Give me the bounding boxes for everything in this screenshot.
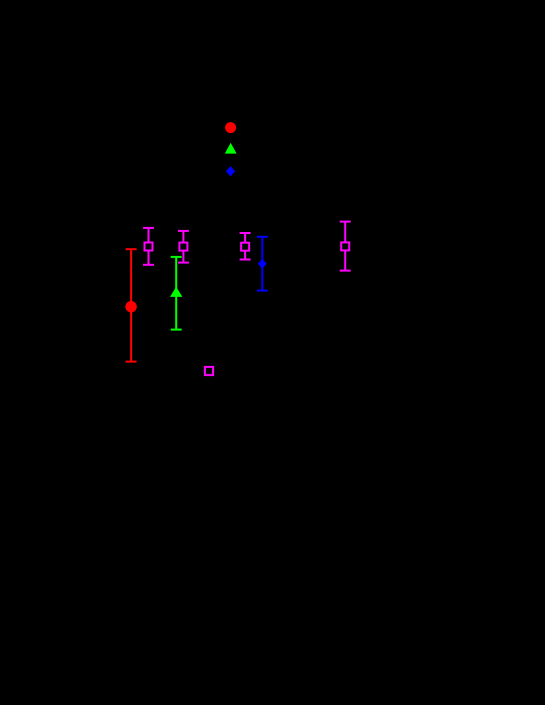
legend marker: red filled circle bbox=[225, 122, 236, 133]
legend marker: green filled triangle bbox=[225, 143, 237, 154]
marker: red filled circle bbox=[125, 301, 136, 312]
error bar: blue point bbox=[257, 237, 268, 291]
error bar: red point bbox=[126, 249, 137, 361]
marker: magenta open square (upper limit point) bbox=[205, 367, 213, 375]
error bar: green point bbox=[171, 257, 182, 330]
marker: green filled triangle bbox=[170, 287, 182, 297]
error bar: magenta point 3 bbox=[240, 233, 251, 260]
error bar: magenta point 4 bbox=[340, 222, 351, 271]
error bar: magenta point 2 bbox=[178, 231, 189, 263]
legend marker: blue filled diamond bbox=[226, 166, 235, 176]
marker: blue filled diamond bbox=[258, 259, 267, 269]
error bar: magenta point 1 bbox=[143, 228, 154, 265]
